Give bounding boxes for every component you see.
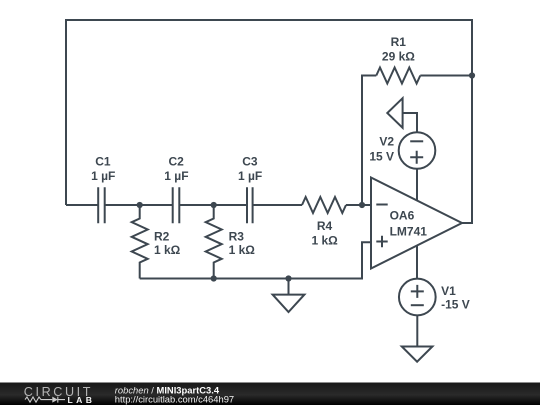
wire C3 to R4 <box>253 204 302 206</box>
wire R1 to right rail <box>420 75 472 77</box>
svg-text:29 kΩ: 29 kΩ <box>382 50 415 64</box>
ground symbol rotated left at V2 <box>387 98 402 128</box>
svg-text:R3: R3 <box>229 229 245 243</box>
svg-text:1 kΩ: 1 kΩ <box>154 243 181 257</box>
node junction R4-feedback <box>359 202 365 208</box>
resistor R3 <box>206 205 222 279</box>
svg-text:C1: C1 <box>95 155 111 169</box>
capacitor C3 <box>247 187 253 223</box>
capacitor C1 <box>98 187 105 223</box>
V1 plus symbol <box>411 285 424 298</box>
op-amp plus input symbol <box>376 236 387 247</box>
ground symbol below V1 <box>402 347 433 362</box>
wire V2 top to ground flag <box>403 113 417 132</box>
node junction C1-R2 <box>137 202 143 208</box>
svg-text:LAB: LAB <box>68 395 96 405</box>
svg-text:LM741: LM741 <box>390 224 428 238</box>
svg-text:C3: C3 <box>242 155 258 169</box>
logo resistor-diode icon <box>25 397 52 402</box>
wire V1 bottom to ground <box>416 315 418 346</box>
svg-text:-15 V: -15 V <box>441 298 470 312</box>
ground symbol mid <box>273 295 305 312</box>
svg-text:15 V: 15 V <box>369 149 394 163</box>
wire outer feedback loop <box>66 20 472 223</box>
svg-text:1 µF: 1 µF <box>91 169 115 183</box>
node junction R3-rail <box>211 275 217 281</box>
resistor R1 <box>376 68 420 84</box>
svg-text:1 kΩ: 1 kΩ <box>229 243 256 257</box>
svg-text:R2: R2 <box>154 229 170 243</box>
resistor R2 <box>132 205 148 279</box>
wire feedback vertical to R1 <box>362 76 376 206</box>
wire R4 to op-amp inverting input <box>346 204 371 206</box>
V1 minus symbol <box>411 304 424 306</box>
wire C1 to C2 <box>105 204 173 206</box>
node junction ground-rail <box>285 275 291 281</box>
svg-text:C2: C2 <box>169 155 185 169</box>
op-amp OA6 triangle <box>371 178 462 269</box>
wire op-amp V- pin to V1 <box>416 246 418 279</box>
voltage source V2 circle <box>399 132 436 169</box>
svg-text:1 µF: 1 µF <box>164 169 188 183</box>
node junction R1-output rail <box>469 72 475 78</box>
node junction C2-R3 <box>211 202 217 208</box>
wire C2 to C3 <box>179 204 247 206</box>
V2 minus symbol <box>410 140 423 142</box>
svg-text:R4: R4 <box>317 219 333 233</box>
wire op-amp V+ pin to V2 <box>416 169 418 201</box>
svg-text:V1: V1 <box>441 284 456 298</box>
footer bar <box>0 383 540 405</box>
svg-text:V2: V2 <box>379 135 394 149</box>
wire ground rail and op-amp noninverting input <box>140 242 371 278</box>
svg-text:1 µF: 1 µF <box>238 169 262 183</box>
wire main line left of C1 <box>66 204 98 206</box>
voltage source V1 circle <box>399 279 436 316</box>
ground lead mid <box>288 279 290 295</box>
op-amp minus input symbol <box>376 204 387 206</box>
svg-text:R1: R1 <box>391 35 407 49</box>
capacitor C2 <box>173 187 180 223</box>
svg-text:OA6: OA6 <box>390 209 415 223</box>
svg-text:http://circuitlab.com/c464h97: http://circuitlab.com/c464h97 <box>115 394 234 405</box>
svg-text:1 kΩ: 1 kΩ <box>311 234 338 248</box>
V2 plus symbol <box>410 151 423 164</box>
resistor R4 <box>302 197 346 213</box>
